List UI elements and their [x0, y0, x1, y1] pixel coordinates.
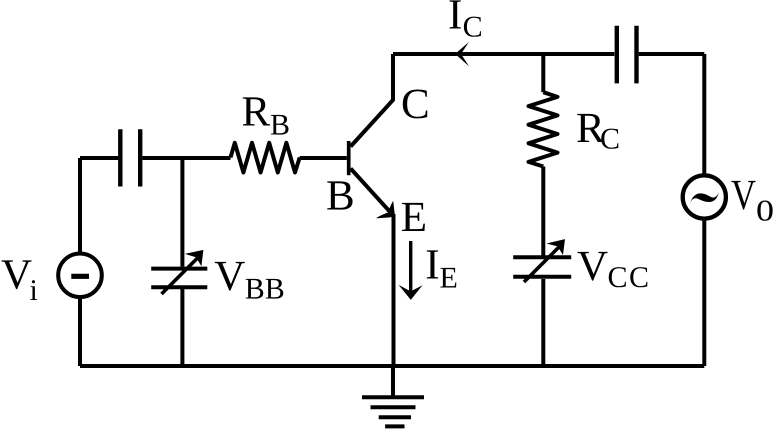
svg-text:C: C	[600, 122, 620, 155]
svg-text:i: i	[30, 274, 38, 307]
svg-text:C: C	[463, 11, 483, 44]
svg-text:C: C	[401, 81, 430, 128]
svg-text:B: B	[270, 109, 290, 142]
svg-text:CC: CC	[608, 261, 651, 294]
svg-text:V: V	[1, 252, 32, 299]
svg-text:E: E	[440, 262, 458, 295]
svg-text:0: 0	[756, 194, 774, 227]
svg-text:R: R	[242, 88, 271, 135]
svg-text:I: I	[448, 0, 462, 39]
svg-text:V: V	[577, 243, 608, 290]
svg-text:V: V	[731, 172, 756, 219]
svg-text:I: I	[425, 242, 439, 289]
svg-text:B: B	[326, 173, 355, 220]
svg-text:E: E	[401, 194, 427, 241]
svg-text:BB: BB	[245, 272, 285, 305]
svg-text:V: V	[214, 253, 245, 300]
